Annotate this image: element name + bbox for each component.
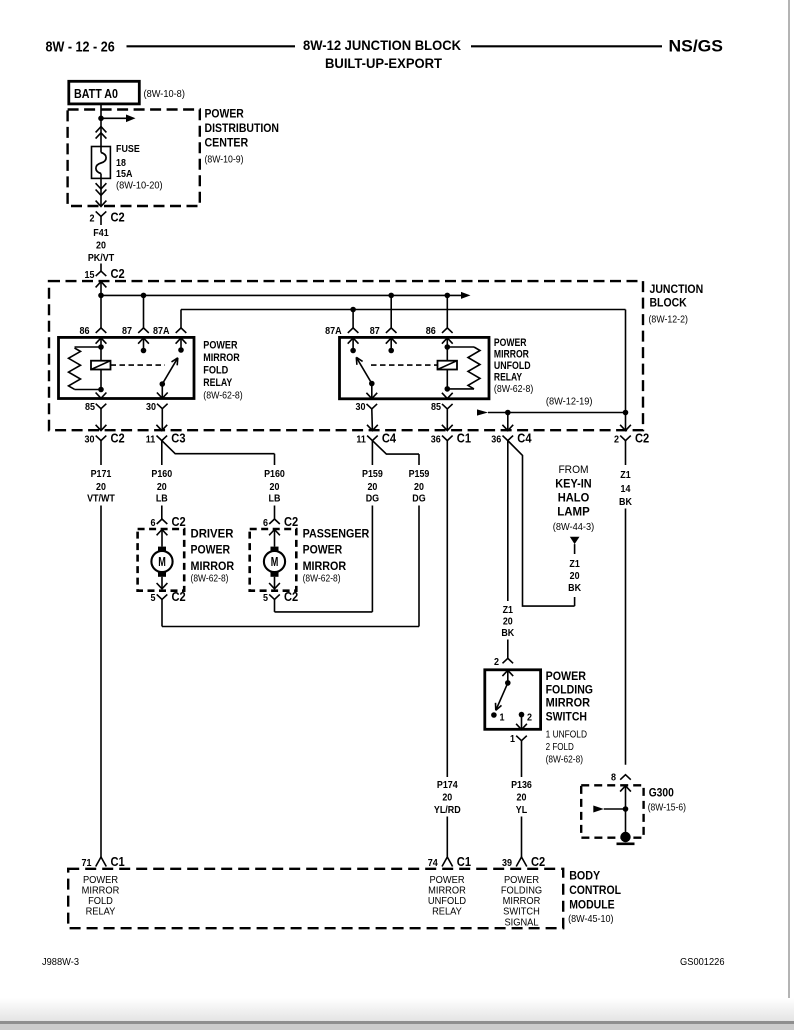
svg-text:MIRROR: MIRROR (303, 559, 347, 573)
svg-text:36: 36 (491, 434, 501, 445)
svg-text:2 FOLD: 2 FOLD (546, 741, 575, 753)
svg-text:POWER: POWER (546, 669, 587, 683)
svg-text:SIGNAL: SIGNAL (504, 917, 539, 928)
svg-text:YL: YL (516, 804, 528, 816)
svg-text:HALO: HALO (558, 491, 590, 505)
svg-text:PASSENGER: PASSENGER (303, 526, 370, 540)
svg-text:P160: P160 (151, 468, 172, 480)
svg-text:87A: 87A (153, 326, 170, 337)
svg-text:C2: C2 (111, 266, 125, 281)
svg-text:20: 20 (96, 481, 106, 493)
svg-text:(8W-15-6): (8W-15-6) (648, 802, 686, 814)
svg-text:MODULE: MODULE (569, 898, 614, 912)
svg-text:C2: C2 (172, 514, 186, 529)
svg-text:DRIVER: DRIVER (191, 526, 234, 540)
svg-text:C1: C1 (457, 854, 471, 869)
svg-text:MIRROR: MIRROR (546, 696, 591, 710)
svg-text:(8W-10-20): (8W-10-20) (116, 180, 163, 192)
svg-text:2: 2 (527, 713, 532, 724)
svg-text:POWER: POWER (83, 875, 118, 886)
svg-text:C2: C2 (111, 210, 125, 225)
svg-text:YL/RD: YL/RD (434, 804, 461, 816)
svg-text:POWER: POWER (429, 875, 464, 886)
svg-text:MIRROR: MIRROR (191, 559, 235, 573)
svg-text:30: 30 (356, 402, 366, 413)
svg-text:Z1: Z1 (569, 558, 580, 570)
svg-text:POWER: POWER (303, 543, 343, 557)
svg-text:8W - 12 - 26: 8W - 12 - 26 (46, 40, 115, 56)
svg-text:C2: C2 (284, 514, 298, 529)
svg-text:POWER: POWER (191, 543, 231, 557)
svg-text:85: 85 (85, 402, 95, 413)
svg-text:LB: LB (156, 493, 168, 505)
svg-text:85: 85 (431, 402, 441, 413)
svg-text:P159: P159 (362, 468, 383, 480)
svg-text:(8W-62-8): (8W-62-8) (191, 573, 229, 585)
svg-text:1: 1 (500, 713, 505, 724)
svg-text:DG: DG (366, 493, 379, 505)
svg-text:1 UNFOLD: 1 UNFOLD (546, 729, 588, 741)
svg-text:MIRROR: MIRROR (503, 896, 541, 907)
svg-text:1: 1 (510, 734, 515, 745)
svg-text:2: 2 (614, 434, 619, 445)
svg-text:FOLD: FOLD (203, 365, 228, 377)
svg-text:30: 30 (85, 434, 95, 445)
svg-text:P159: P159 (409, 468, 430, 480)
svg-text:BK: BK (501, 627, 514, 639)
svg-text:SWITCH: SWITCH (546, 710, 587, 724)
svg-text:86: 86 (80, 326, 90, 337)
svg-text:POWER: POWER (205, 107, 245, 121)
svg-text:RELAY: RELAY (432, 907, 462, 918)
svg-text:20: 20 (157, 481, 167, 493)
svg-text:CENTER: CENTER (205, 136, 249, 150)
svg-text:C4: C4 (382, 430, 397, 445)
svg-text:C2: C2 (635, 430, 649, 445)
svg-text:2: 2 (90, 214, 95, 225)
svg-text:Z1: Z1 (503, 604, 514, 616)
svg-text:CONTROL: CONTROL (569, 883, 621, 897)
svg-text:RELAY: RELAY (203, 377, 233, 389)
svg-text:RELAY: RELAY (86, 907, 116, 918)
svg-text:F41: F41 (93, 227, 109, 239)
svg-text:6: 6 (151, 518, 156, 529)
svg-text:(8W-45-10): (8W-45-10) (568, 913, 613, 925)
svg-text:SWITCH: SWITCH (503, 907, 540, 918)
svg-text:C3: C3 (171, 430, 185, 445)
svg-text:20: 20 (367, 481, 377, 493)
svg-text:5: 5 (263, 593, 268, 604)
svg-text:C2: C2 (111, 430, 125, 445)
svg-text:20: 20 (517, 792, 527, 804)
svg-text:(8W-10-8): (8W-10-8) (144, 88, 185, 100)
svg-text:P174: P174 (437, 779, 458, 791)
svg-text:BLOCK: BLOCK (650, 296, 687, 310)
svg-text:C1: C1 (111, 854, 125, 869)
svg-text:Z1: Z1 (620, 469, 631, 481)
svg-text:GS001226: GS001226 (680, 957, 725, 968)
svg-text:KEY-IN: KEY-IN (555, 477, 591, 491)
svg-text:87A: 87A (325, 326, 342, 337)
svg-text:39: 39 (502, 858, 512, 869)
svg-text:MIRROR: MIRROR (203, 352, 240, 364)
svg-text:BK: BK (568, 582, 581, 594)
svg-text:UNFOLD: UNFOLD (428, 896, 466, 907)
svg-text:20: 20 (96, 240, 106, 252)
svg-text:(8W-62-8): (8W-62-8) (303, 573, 341, 585)
svg-text:74: 74 (428, 858, 438, 869)
svg-text:BODY: BODY (569, 869, 600, 883)
svg-text:BATT A0: BATT A0 (74, 86, 118, 101)
svg-text:14: 14 (621, 483, 631, 495)
svg-text:LB: LB (269, 493, 281, 505)
svg-text:20: 20 (414, 481, 424, 493)
svg-text:87: 87 (370, 326, 380, 337)
svg-text:FOLDING: FOLDING (501, 886, 543, 897)
svg-text:VT/WT: VT/WT (87, 493, 115, 505)
svg-text:(8W-62-8): (8W-62-8) (203, 389, 242, 401)
svg-text:87: 87 (122, 326, 132, 337)
svg-text:POWER: POWER (494, 337, 527, 349)
svg-text:C4: C4 (517, 430, 532, 445)
svg-text:15: 15 (85, 270, 95, 281)
svg-text:MIRROR: MIRROR (494, 349, 529, 361)
svg-text:BUILT-UP-EXPORT: BUILT-UP-EXPORT (325, 56, 443, 71)
svg-text:LAMP: LAMP (557, 505, 590, 519)
svg-text:NS/GS: NS/GS (669, 38, 724, 56)
svg-text:C1: C1 (457, 430, 471, 445)
svg-text:BK: BK (619, 496, 632, 508)
svg-text:G300: G300 (649, 785, 674, 799)
svg-text:(8W-12-2): (8W-12-2) (649, 314, 688, 326)
svg-text:30: 30 (146, 402, 156, 413)
svg-text:20: 20 (270, 481, 280, 493)
svg-text:2: 2 (494, 657, 499, 668)
svg-text:5: 5 (151, 593, 156, 604)
svg-text:POWER: POWER (203, 340, 237, 352)
svg-text:15A: 15A (116, 168, 133, 180)
svg-text:DG: DG (412, 493, 425, 505)
svg-text:11: 11 (146, 434, 156, 445)
svg-text:(8W-12-19): (8W-12-19) (546, 396, 593, 408)
svg-text:M: M (271, 555, 279, 569)
svg-text:6: 6 (263, 518, 268, 529)
svg-text:FROM: FROM (558, 464, 588, 476)
svg-text:MIRROR: MIRROR (428, 886, 466, 897)
svg-text:M: M (158, 555, 166, 569)
svg-text:(8W-44-3): (8W-44-3) (553, 521, 594, 533)
svg-text:8: 8 (611, 773, 616, 784)
svg-text:36: 36 (431, 434, 441, 445)
svg-text:MIRROR: MIRROR (82, 886, 120, 897)
svg-text:RELAY: RELAY (494, 372, 523, 384)
svg-text:DISTRIBUTION: DISTRIBUTION (205, 121, 280, 135)
svg-text:UNFOLD: UNFOLD (494, 360, 531, 372)
svg-text:JUNCTION: JUNCTION (650, 282, 704, 296)
svg-text:J988W-3: J988W-3 (42, 957, 79, 968)
svg-text:(8W-62-8): (8W-62-8) (546, 754, 583, 766)
svg-text:PK/VT: PK/VT (88, 252, 115, 264)
svg-text:FOLD: FOLD (88, 896, 113, 907)
svg-text:86: 86 (426, 326, 436, 337)
svg-text:20: 20 (570, 570, 580, 582)
svg-text:8W-12 JUNCTION BLOCK: 8W-12 JUNCTION BLOCK (303, 38, 461, 53)
svg-text:POWER: POWER (504, 875, 539, 886)
svg-text:P160: P160 (264, 468, 285, 480)
svg-text:71: 71 (82, 858, 92, 869)
svg-text:(8W-62-8): (8W-62-8) (494, 383, 533, 395)
svg-text:P171: P171 (91, 468, 112, 480)
svg-text:(8W-10-9): (8W-10-9) (205, 153, 244, 165)
svg-text:20: 20 (503, 616, 513, 628)
svg-text:P136: P136 (511, 779, 532, 791)
svg-text:FUSE: FUSE (116, 143, 140, 155)
svg-text:C2: C2 (531, 854, 545, 869)
svg-text:FOLDING: FOLDING (546, 682, 593, 696)
svg-text:20: 20 (442, 792, 452, 804)
svg-text:11: 11 (356, 434, 366, 445)
